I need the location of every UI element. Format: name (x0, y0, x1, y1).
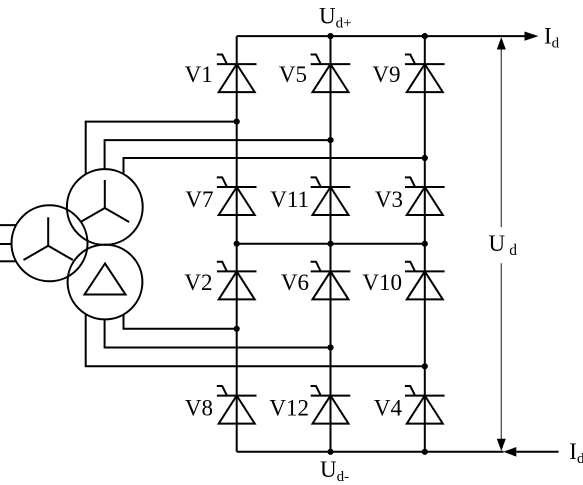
wire: middle bus between bridges (237, 243, 425, 245)
thyristor V2 (184, 262, 256, 300)
thyristor V3 (375, 177, 445, 215)
wire: bridge leg column 1 (236, 36, 238, 452)
svg-text:Ud-: Ud- (320, 457, 349, 485)
wire: delta secondary phase a to column 1 (124, 315, 237, 329)
wire: delta secondary phase c to column 3 (86, 315, 425, 367)
wire: wye secondary phase c to column 3 (124, 158, 425, 174)
wire: Ud measurement line lower (500, 263, 502, 439)
svg-text:V4: V4 (374, 396, 403, 421)
svg-text:V11: V11 (270, 187, 309, 212)
transformer primary winding (wye) (12, 205, 88, 281)
junction: bottom bus / column 3 (422, 449, 428, 455)
svg-text:Ud+: Ud+ (319, 4, 352, 32)
junction: phase b / column 2 (327, 137, 333, 143)
thyristor V7 (185, 177, 256, 215)
thyristor V11 (270, 177, 350, 215)
svg-text:V12: V12 (269, 396, 309, 421)
junction: delta phase c / column 3 (422, 363, 428, 369)
arrow: Ud measurement up (497, 37, 506, 50)
junction: top bus / column 3 (422, 33, 428, 39)
svg-text:V3: V3 (375, 187, 403, 212)
wire: Ud measurement line upper (500, 49, 502, 228)
arrow: Id output top (525, 32, 539, 41)
svg-text:Id: Id (544, 24, 560, 52)
junction: middle bus / column 3 (422, 241, 428, 247)
svg-text:V8: V8 (185, 396, 213, 421)
wire: delta secondary phase b to column 2 (105, 319, 331, 347)
wire: wye secondary phase a to column 1 (86, 122, 237, 175)
junction: bottom bus / column 2 (327, 449, 333, 455)
arrow: Id input bottom (503, 447, 516, 457)
svg-text:d: d (509, 242, 517, 259)
thyristor V4 (374, 386, 445, 424)
svg-text:V6: V6 (281, 270, 309, 295)
wire: bottom DC bus Ud- (237, 451, 504, 453)
thyristor V1 (185, 55, 257, 93)
thyristor V6 (281, 262, 350, 300)
junction: middle bus / column 2 (327, 241, 333, 247)
junction: phase a / column 1 (234, 119, 240, 125)
thyristor V12 (269, 386, 350, 424)
wire: 3-phase input line 1 (0, 224, 17, 226)
thyristor V5 (279, 55, 350, 93)
wire: 3-phase input line 2 (0, 243, 12, 245)
junction: delta phase b / column 2 (327, 344, 333, 350)
svg-text:V5: V5 (279, 62, 307, 87)
svg-text:V10: V10 (362, 270, 402, 295)
svg-text:V7: V7 (185, 187, 213, 212)
svg-text:V1: V1 (185, 62, 213, 87)
thyristor V10 (362, 262, 444, 300)
junction: middle bus / column 1 (234, 241, 240, 247)
wire: 3-phase input line 3 (0, 260, 16, 262)
arrow: Ud measurement down (497, 439, 506, 451)
wire: wye secondary phase b to column 2 (105, 140, 331, 169)
wire: top DC bus Ud+ (237, 35, 525, 37)
junction: phase c / column 3 (422, 155, 428, 161)
wire: bridge leg column 2 (330, 36, 332, 452)
thyristor V8 (185, 386, 257, 424)
wire: bridge leg column 3 (424, 36, 426, 452)
transformer secondary winding 1 (wye) (67, 169, 143, 245)
transformer secondary winding 2 (delta) (68, 245, 143, 320)
junction: delta phase a / column 1 (234, 326, 240, 332)
wire: Id lead-in bottom right (516, 451, 558, 453)
svg-text:U: U (489, 231, 506, 256)
thyristor V9 (372, 55, 444, 93)
svg-text:V2: V2 (184, 270, 212, 295)
svg-text:Id: Id (569, 439, 583, 467)
svg-text:V9: V9 (372, 62, 400, 87)
junction: top bus / column 2 (327, 33, 333, 39)
